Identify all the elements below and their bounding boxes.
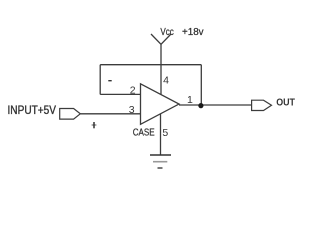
wire pin 5 to ground	[160, 114, 162, 155]
wire to pin 2	[100, 93, 140, 95]
svg-text:CASE: CASE	[133, 127, 155, 139]
op-amp U1	[141, 84, 180, 125]
svg-text:2: 2	[130, 85, 136, 97]
wire Vcc to pin 4	[160, 44, 162, 94]
svg-text:+18v: +18v	[182, 27, 204, 38]
svg-text:1: 1	[187, 94, 193, 106]
wire feedback left	[99, 65, 101, 95]
wire feedback top	[100, 64, 201, 66]
svg-text:4: 4	[163, 75, 169, 87]
wire output	[179, 104, 252, 106]
label plus	[92, 122, 97, 128]
svg-text:OUT: OUT	[276, 98, 295, 109]
wire feedback right	[200, 65, 202, 106]
connector OUT	[252, 100, 272, 110]
junction dot	[198, 103, 203, 108]
svg-text:5: 5	[162, 127, 168, 139]
power symbol Vcc	[151, 34, 171, 44]
connector INPUT	[60, 109, 81, 120]
ground	[150, 155, 171, 168]
svg-text:Vcc: Vcc	[160, 27, 173, 38]
label minus	[108, 80, 111, 82]
wire input to pin 3	[80, 113, 140, 115]
svg-text:3: 3	[129, 104, 135, 116]
svg-text:INPUT+5V: INPUT+5V	[8, 105, 57, 117]
